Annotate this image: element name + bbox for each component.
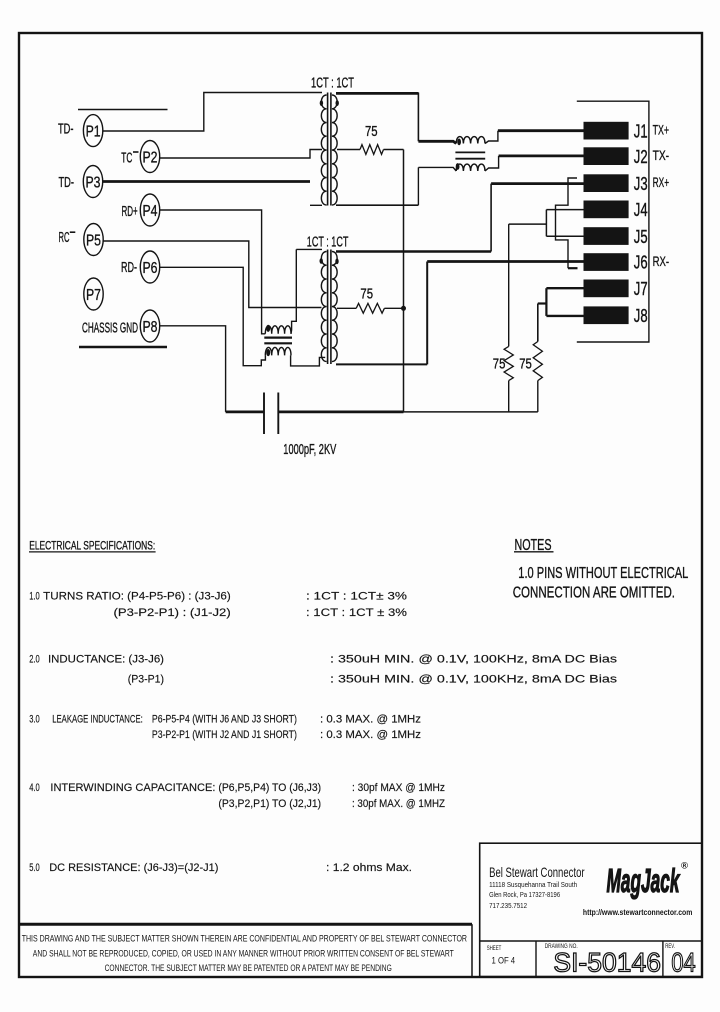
svg-text:P4: P4 [143, 203, 158, 220]
transformer T2 primary phase dot [320, 258, 323, 264]
wire P2 to T1 primary center tap [160, 150, 322, 159]
svg-text:1.0 PINS WITHOUT ELECTRICAL: 1.0 PINS WITHOUT ELECTRICAL [518, 565, 688, 582]
wire J6 riser [426, 262, 428, 365]
wire R3 to rail [537, 381, 539, 412]
svg-text:TC: TC [121, 149, 132, 166]
wire J7-J8 tie [545, 288, 547, 316]
junction termination node [401, 306, 406, 311]
connector body line above P1 [78, 109, 168, 111]
svg-text:1 OF 4: 1 OF 4 [492, 956, 516, 966]
wire J3 (thick) [491, 182, 583, 185]
svg-text:1000pF, 2KV: 1000pF, 2KV [283, 441, 336, 458]
choke L1 bottom coil lead [418, 167, 456, 171]
wire J4 J5 tap to R2 [508, 224, 510, 346]
pin J8 pad [584, 306, 629, 324]
svg-text:P3-P2-P1 (WITH J2 AND J1 SHORT: P3-P2-P1 (WITH J2 AND J1 SHORT) [152, 729, 297, 741]
title block box [480, 843, 702, 976]
wire J1 (thick) [498, 129, 584, 132]
svg-text:AND SHALL NOT BE REPRODUCED, C: AND SHALL NOT BE REPRODUCED, COPIED, OR … [33, 948, 454, 958]
pin J1 pad [584, 122, 629, 140]
pin P7 [84, 278, 103, 310]
svg-text:J2: J2 [634, 146, 648, 167]
svg-text:MagJack: MagJack [607, 862, 681, 899]
svg-text:11118 Susquehanna Trail South: 11118 Susquehanna Trail South [489, 880, 577, 889]
svg-text:3.0: 3.0 [29, 713, 40, 725]
pin P6 [140, 251, 159, 283]
svg-text:Glen Rock, Pa 17327-8196: Glen Rock, Pa 17327-8196 [489, 890, 560, 899]
wire choke L1 to J1 [485, 131, 498, 144]
svg-text:2.0: 2.0 [29, 654, 40, 666]
pin P4 [140, 194, 159, 226]
pin J7 pad [584, 280, 629, 298]
transformer T1 core [327, 93, 329, 206]
transformer T2 primary winding [321, 252, 326, 362]
wire J3 riser [490, 184, 492, 252]
pin J4 pad [584, 201, 629, 219]
svg-text:1.0: 1.0 [29, 590, 40, 602]
choke L1 bottom coil [456, 164, 485, 171]
svg-text:75: 75 [365, 123, 378, 140]
wire P6 to choke L2 bottom coil [160, 267, 266, 365]
choke L2 top coil [265, 326, 291, 334]
svg-text:CONNECTOR. THE SUBJECT MATTER: CONNECTOR. THE SUBJECT MATTER MAY BE PAT… [105, 963, 392, 973]
svg-text:THIS DRAWING AND THE SUBJECT M: THIS DRAWING AND THE SUBJECT MATTER SHOW… [22, 933, 468, 943]
svg-text:J6: J6 [634, 252, 648, 273]
svg-text:SHEET: SHEET [487, 945, 502, 952]
wire T2 primary top [296, 248, 322, 250]
svg-text:J7: J7 [634, 278, 648, 299]
wire J4-J5 tie [545, 210, 547, 237]
choke L2 bottom coil phase dot [266, 349, 270, 356]
svg-text:RC: RC [59, 229, 70, 246]
svg-text:J5: J5 [634, 226, 648, 247]
svg-text:P8: P8 [143, 319, 158, 336]
wire P8 to capacitor rail [160, 326, 226, 412]
svg-text:P1: P1 [86, 123, 101, 140]
svg-text:TX+: TX+ [653, 123, 670, 138]
svg-text:75: 75 [360, 285, 373, 302]
svg-text:RD-: RD- [121, 259, 137, 276]
wire termination node vertical [403, 150, 405, 412]
svg-text:(P3-P1): (P3-P1) [128, 673, 164, 685]
svg-text:RX+: RX+ [653, 175, 670, 190]
svg-text:P5: P5 [86, 232, 101, 249]
resistor R4 75 [356, 303, 384, 313]
choke L1 top coil phase dot [457, 139, 461, 146]
svg-text:717.235.7512: 717.235.7512 [489, 901, 527, 910]
disclaimer box [19, 923, 472, 926]
resistor R2 75 [504, 346, 513, 380]
connector bracket outline [577, 101, 649, 342]
svg-text:J3: J3 [634, 173, 648, 194]
svg-text:DC RESISTANCE: (J6-J3)=(J2-J1): DC RESISTANCE: (J6-J3)=(J2-J1) [49, 862, 218, 874]
wire P3 (thick) [103, 180, 310, 183]
svg-text:5.0: 5.0 [29, 862, 40, 874]
svg-text:®: ® [681, 861, 688, 872]
wire termination rail to R2 R3 [404, 411, 538, 413]
choke L2 bottom coil [265, 347, 291, 355]
wire J5 [546, 235, 583, 237]
transformer T2 secondary winding [332, 252, 337, 362]
wire J6 (thick) [427, 260, 583, 263]
svg-text:RD+: RD+ [122, 203, 138, 220]
wire P1 to T1 primary top [103, 93, 322, 132]
wire T2 secondary center tap to R4 [337, 307, 356, 309]
svg-text:: 0.3 MAX. @ 1MHz: : 0.3 MAX. @ 1MHz [320, 729, 421, 741]
svg-text:: 0.3 MAX. @ 1MHz: : 0.3 MAX. @ 1MHz [320, 713, 421, 725]
choke L1 bottom coil phase dot [456, 163, 460, 170]
wire J8 (thick) [546, 315, 583, 317]
svg-text:P6-P5-P4 (WITH J6 AND J3 SHORT: P6-P5-P4 (WITH J6 AND J3 SHORT) [152, 713, 297, 725]
wire T1 secondary top to choke L1 (thick) [336, 92, 418, 95]
wire R2 to rail [508, 381, 510, 412]
pin J6 pad [584, 253, 629, 271]
transformer T1 primary phase dot [320, 100, 323, 106]
pin P5 [84, 224, 103, 256]
wire choke L2 top coil to T2 primary top [291, 249, 296, 333]
svg-text:: 30pf MAX @ 1MHz: : 30pf MAX @ 1MHz [352, 782, 445, 794]
pin P2 [140, 141, 159, 173]
svg-text:1CT : 1CT: 1CT : 1CT [311, 75, 354, 92]
choke L2 top coil phase dot [266, 325, 270, 332]
wire T1 secondary bottom [336, 204, 418, 206]
svg-text:75: 75 [493, 356, 506, 373]
wire J7-J8 tap [538, 302, 547, 304]
choke L1 top coil lead (thick) [418, 141, 456, 143]
transformer T1 primary winding [321, 95, 326, 205]
svg-text:TD-: TD- [58, 121, 74, 138]
svg-text:TD-: TD- [59, 174, 75, 191]
svg-text:04: 04 [671, 948, 695, 978]
svg-text:75: 75 [519, 356, 532, 373]
svg-text:P2: P2 [143, 149, 158, 166]
svg-text:LEAKAGE INDUCTANCE:: LEAKAGE INDUCTANCE: [52, 713, 143, 725]
pin J5 pad [584, 227, 629, 245]
pin P1 [83, 115, 102, 147]
svg-text:ELECTRICAL SPECIFICATIONS:: ELECTRICAL SPECIFICATIONS: [29, 540, 155, 552]
choke L1 top coil [456, 137, 485, 144]
svg-text:INTERWINDING CAPACITANCE:: INTERWINDING CAPACITANCE: [50, 782, 215, 794]
svg-text:1CT : 1CT: 1CT : 1CT [307, 233, 349, 250]
wire R4 to termination node [384, 307, 403, 309]
svg-text:CHASSIS GND: CHASSIS GND [82, 319, 138, 336]
wire capacitor right lead (thick) [278, 410, 403, 413]
connector body line below P8 [79, 346, 167, 349]
svg-text:P3: P3 [86, 174, 101, 191]
pin J2 pad [584, 147, 629, 165]
wire P4 to choke L2 top coil [160, 210, 266, 334]
svg-text:4.0: 4.0 [29, 782, 40, 794]
svg-text:: 1CT : 1CT ± 3%: : 1CT : 1CT ± 3% [306, 607, 407, 619]
wire capacitor left lead (thick) [226, 410, 264, 413]
capacitor C1 plates [263, 393, 265, 435]
choke L2 core [264, 337, 292, 339]
svg-text:: 350uH MIN. @ 0.1V, 100KHz, 8: : 350uH MIN. @ 0.1V, 100KHz, 8mA DC Bias [330, 673, 618, 685]
svg-text:http://www.stewartconnector.co: http://www.stewartconnector.com [583, 908, 692, 917]
choke L1 core [455, 151, 485, 153]
svg-text:CONNECTION ARE OMITTED.: CONNECTION ARE OMITTED. [513, 584, 675, 601]
pin P3 [83, 166, 102, 198]
wire J4-J5 tap [509, 223, 547, 225]
wire J7 (thick) [546, 287, 583, 289]
wire J7 J8 tap to R3 [537, 304, 539, 342]
svg-text:: 30pf MAX. @ 1MHZ: : 30pf MAX. @ 1MHZ [352, 798, 445, 810]
svg-text:RX-: RX- [653, 254, 670, 269]
wire T1 secondary center tap to R1 [337, 149, 360, 151]
wire T2 secondary top to J3 riser (thick) [336, 250, 491, 253]
svg-text:TURNS RATIO: (P4-P5-P6) : (J3-: TURNS RATIO: (P4-P5-P6) : (J3-J6) [43, 590, 231, 602]
wire J2 (thick) [499, 154, 584, 157]
pin P8 [140, 310, 159, 342]
svg-text:J8: J8 [634, 305, 648, 326]
wire J4 [546, 209, 583, 211]
wire P5 to T2 primary center tap [103, 241, 321, 308]
wire J3-J6 auxiliary link [556, 178, 578, 268]
wire T2 primary bottom staircase [291, 355, 326, 366]
transformer T2 secondary phase dot [335, 258, 338, 264]
svg-text:: 350uH MIN. @ 0.1V, 100KHz, 8: : 350uH MIN. @ 0.1V, 100KHz, 8mA DC Bias [330, 654, 618, 666]
svg-text:TX-: TX- [653, 148, 670, 163]
resistor R3 75 [533, 342, 542, 381]
wire T2 secondary bottom [336, 363, 427, 365]
transformer T1 secondary phase dot [336, 100, 339, 106]
svg-text:: 1CT : 1CT± 3%: : 1CT : 1CT± 3% [306, 590, 407, 602]
wire choke L1 to J2 [485, 156, 499, 171]
svg-text:INDUCTANCE: (J3-J6): INDUCTANCE: (J3-J6) [48, 654, 164, 666]
svg-text:: 1.2 ohms Max.: : 1.2 ohms Max. [326, 862, 412, 874]
svg-text:P7: P7 [86, 287, 101, 304]
svg-text:P6: P6 [143, 260, 158, 277]
svg-text:J1: J1 [634, 120, 648, 141]
svg-text:(P6,P5,P4) TO (J6,J3): (P6,P5,P4) TO (J6,J3) [218, 782, 321, 794]
transformer T1 secondary winding [332, 95, 337, 205]
wire T1 primary bottom stub [310, 204, 322, 206]
wire R1 to termination node [384, 149, 404, 151]
svg-text:SI-50146: SI-50146 [553, 948, 661, 978]
svg-text:(P3,P2,P1) TO (J2,J1): (P3,P2,P1) TO (J2,J1) [218, 798, 321, 810]
svg-text:(P3-P2-P1) : (J1-J2): (P3-P2-P1) : (J1-J2) [114, 607, 231, 619]
transformer T2 core [327, 250, 329, 365]
svg-text:J4: J4 [634, 199, 648, 220]
svg-text:Bel Stewart Connector: Bel Stewart Connector [489, 864, 585, 880]
resistor R1 75 [360, 145, 383, 155]
pin J3 pad [584, 174, 629, 192]
